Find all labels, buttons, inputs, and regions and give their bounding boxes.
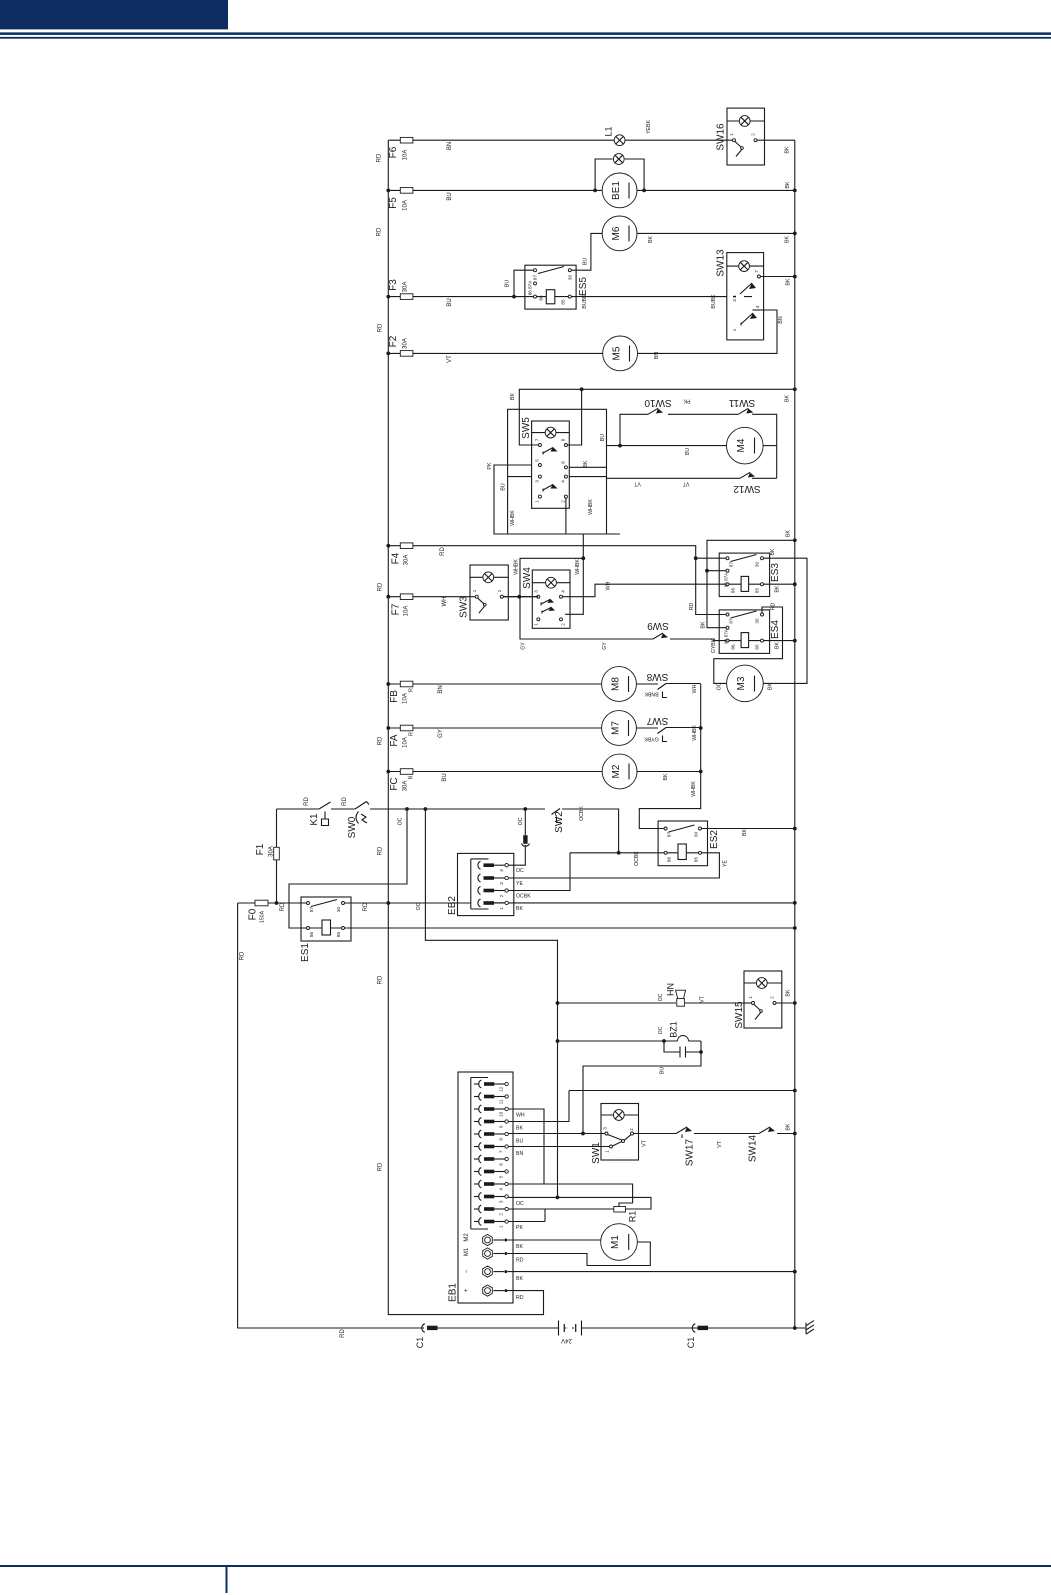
svg-text:86: 86	[731, 644, 736, 650]
svg-text:WHBK: WHBK	[588, 499, 594, 515]
svg-text:1: 1	[534, 623, 539, 626]
svg-text:24V: 24V	[561, 1337, 572, 1343]
svg-text:BN: BN	[654, 352, 660, 359]
wire ES2-86 from SW2/EB2	[508, 853, 664, 891]
svg-text:SW3: SW3	[459, 596, 470, 618]
footer tick	[226, 1567, 228, 1593]
svg-text:86: 86	[731, 588, 736, 594]
svg-text:L1: L1	[604, 126, 614, 136]
svg-text:30: 30	[336, 907, 341, 913]
svg-text:1: 1	[605, 1150, 610, 1153]
svg-text:WHBK: WHBK	[514, 559, 520, 575]
switch SW10 row	[620, 414, 738, 445]
svg-text:BU: BU	[516, 1139, 523, 1145]
svg-text:85: 85	[694, 857, 699, 863]
wire RD left bus	[388, 140, 543, 1314]
fuse F6	[388, 139, 727, 141]
svg-text:R: R	[409, 732, 415, 736]
svg-text:5: 5	[498, 1175, 503, 1178]
wire horn OC row	[558, 1002, 745, 1004]
svg-text:OCBK: OCBK	[516, 894, 531, 900]
wire stud M1 loop to M1 right	[508, 1242, 651, 1266]
svg-text:OC: OC	[658, 1026, 664, 1034]
svg-text:M1: M1	[610, 1235, 621, 1249]
svg-text:4: 4	[561, 480, 566, 483]
svg-text:OCBK: OCBK	[579, 806, 585, 821]
svg-text:4: 4	[561, 590, 566, 593]
header bar	[0, 0, 228, 29]
svg-text:BK: BK	[786, 278, 792, 285]
svg-text:GYBK: GYBK	[644, 736, 659, 742]
motor M1	[601, 1224, 638, 1261]
svg-text:BU: BU	[660, 1067, 666, 1074]
wire SW1-3 from EB1-8	[508, 1133, 605, 1135]
svg-text:BU: BU	[505, 280, 511, 287]
svg-text:SW14: SW14	[748, 1134, 759, 1162]
fuse FA	[388, 727, 601, 729]
svg-text:FB: FB	[389, 690, 400, 703]
svg-text:86 87A: 86 87A	[724, 628, 729, 643]
svg-text:SW12: SW12	[733, 483, 761, 494]
wire WHBK SW5 to SW4	[503, 558, 583, 614]
svg-text:87: 87	[729, 618, 734, 624]
svg-text:R1: R1	[628, 1211, 638, 1223]
svg-text:RD: RD	[378, 736, 384, 745]
svg-text:VT: VT	[633, 481, 640, 487]
svg-text:SW5: SW5	[521, 417, 532, 439]
svg-text:BNBK: BNBK	[644, 691, 659, 697]
svg-text:C1: C1	[415, 1337, 425, 1349]
svg-text:F0: F0	[248, 908, 259, 920]
wire EB1-7 BN to SW1-1	[508, 1146, 609, 1148]
svg-text:BK: BK	[785, 236, 791, 243]
fuse F4	[388, 546, 726, 615]
svg-text:BU: BU	[447, 298, 453, 306]
svg-text:4: 4	[498, 1188, 503, 1191]
svg-text:RD: RD	[516, 1258, 524, 1264]
EB1 stud M2	[483, 1234, 493, 1245]
wire ES1-86 energize path	[289, 809, 407, 928]
wire RD battery feed (far left)	[238, 903, 424, 1328]
svg-text:RD: RD	[304, 797, 310, 806]
svg-text:30A: 30A	[403, 781, 409, 792]
svg-text:BK: BK	[770, 548, 776, 555]
svg-text:SW4: SW4	[522, 567, 533, 589]
motor M8	[602, 667, 637, 702]
svg-text:RD: RD	[378, 846, 384, 855]
wire OC to EB2-4 with inline connector	[508, 809, 525, 865]
svg-text:WH: WH	[606, 581, 612, 590]
svg-text:2: 2	[629, 1128, 634, 1131]
svg-text:M6: M6	[611, 226, 622, 240]
svg-text:BK: BK	[648, 236, 654, 243]
svg-text:ES1: ES1	[300, 943, 311, 962]
svg-text:OC: OC	[516, 1201, 524, 1207]
switch SW15	[744, 971, 782, 1028]
svg-text:SW11: SW11	[728, 397, 755, 408]
switch SW13	[727, 253, 764, 340]
switch SW8	[636, 684, 700, 698]
switch SW7	[636, 728, 700, 742]
svg-text:86: 86	[309, 932, 314, 938]
footer rule	[0, 1565, 1051, 1567]
svg-text:RD: RD	[440, 547, 446, 556]
svg-text:BN: BN	[438, 685, 444, 693]
svg-text:87: 87	[729, 562, 734, 568]
svg-text:RD: RD	[378, 1162, 384, 1171]
svg-text:BU: BU	[600, 434, 606, 441]
svg-text:OC: OC	[717, 682, 723, 690]
svg-text:VT: VT	[700, 995, 706, 1002]
svg-text:M8: M8	[611, 677, 622, 691]
wire BK right bus	[794, 140, 796, 1328]
switch SW17	[676, 1127, 687, 1138]
svg-text:WH: WH	[516, 1113, 525, 1119]
svg-text:R: R	[409, 775, 415, 779]
svg-text:86: 86	[539, 295, 544, 301]
svg-text:BK: BK	[516, 1126, 523, 1132]
svg-text:WH: WH	[692, 684, 698, 693]
svg-text:6: 6	[498, 1163, 503, 1166]
svg-text:BK: BK	[663, 773, 669, 780]
svg-text:SW13: SW13	[716, 249, 727, 277]
svg-text:F4: F4	[391, 552, 402, 564]
svg-text:7: 7	[535, 438, 540, 441]
svg-text:VT: VT	[717, 1140, 723, 1147]
connector EB1	[458, 1072, 513, 1303]
fuse F2	[388, 352, 602, 354]
svg-text:K1: K1	[309, 813, 320, 826]
relay ES3	[719, 553, 769, 596]
svg-text:PK: PK	[487, 462, 493, 469]
svg-text:BN: BN	[778, 316, 784, 323]
switch SW4	[532, 570, 570, 628]
wire F4 to ES3-87	[696, 557, 726, 559]
wire M5 BN to SW13-4	[638, 310, 778, 353]
relay ES2	[658, 821, 707, 866]
svg-text:RD: RD	[378, 323, 384, 332]
svg-text:3: 3	[499, 882, 504, 885]
svg-text:1: 1	[729, 133, 734, 136]
fuse FC	[388, 771, 602, 773]
svg-text:−: −	[464, 1269, 470, 1273]
wire ES2-30 to bus	[702, 828, 795, 830]
svg-text:BK: BK	[742, 829, 748, 836]
motor M4	[727, 427, 764, 464]
svg-text:RD: RD	[377, 153, 383, 162]
svg-text:M3: M3	[736, 676, 747, 690]
svg-text:VT: VT	[682, 481, 689, 487]
svg-text:3 5: 3 5	[732, 295, 737, 302]
svg-text:BUBK: BUBK	[711, 294, 717, 309]
svg-text:YE: YE	[723, 860, 729, 867]
wire EB1-2/1 PK jumper to R1 left	[508, 1209, 614, 1222]
svg-text:SW15: SW15	[734, 1001, 745, 1029]
svg-text:WHBK: WHBK	[575, 559, 581, 575]
svg-text:RD: RD	[378, 975, 384, 984]
EB1 stud minus	[483, 1266, 493, 1277]
svg-text:BN: BN	[447, 142, 453, 150]
svg-text:BK: BK	[785, 181, 791, 188]
switch SW5	[532, 421, 570, 508]
svg-text:SW2: SW2	[554, 811, 565, 833]
switch SW2	[552, 809, 562, 823]
svg-text:SW16: SW16	[716, 123, 727, 151]
wire ES5-87 jog	[514, 270, 533, 296]
svg-text:ES2: ES2	[709, 830, 720, 849]
wire SW1-2 through SW17 SW14 to bus	[634, 1133, 795, 1135]
switch SW14	[759, 1127, 770, 1134]
svg-text:30: 30	[567, 275, 572, 281]
wire ES2-85 YE to EB2-3	[508, 853, 719, 878]
wire plus RD row	[506, 1290, 509, 1292]
svg-text:R: R	[409, 688, 415, 692]
svg-text:2: 2	[770, 996, 775, 999]
svg-text:ES3: ES3	[770, 563, 781, 582]
svg-text:BK: BK	[775, 642, 781, 649]
resistor R1	[614, 1207, 626, 1213]
svg-text:GY: GY	[602, 642, 608, 650]
wire SW5 BK to bus	[519, 389, 795, 445]
svg-text:BU: BU	[685, 448, 691, 455]
svg-text:BK: BK	[785, 395, 791, 402]
wire ES1-85 to bus	[345, 927, 795, 929]
svg-text:1: 1	[732, 328, 737, 331]
wire 87A chain from bus	[707, 540, 795, 627]
svg-text:SW1: SW1	[591, 1142, 602, 1164]
svg-text:OC: OC	[398, 817, 404, 825]
svg-text:8: 8	[498, 1138, 503, 1141]
svg-text:F7: F7	[391, 603, 402, 615]
svg-text:BK: BK	[775, 585, 781, 592]
fuse F1	[276, 809, 278, 903]
svg-text:SW10: SW10	[644, 397, 672, 408]
svg-text:3: 3	[534, 590, 539, 593]
svg-text:10A: 10A	[403, 200, 409, 211]
svg-text:BK: BK	[768, 683, 774, 690]
connector EB2 pin 4	[478, 861, 481, 869]
capacitor branch under BZ1	[664, 1041, 701, 1058]
relay ES5	[525, 265, 576, 309]
svg-text:OCBK: OCBK	[634, 851, 640, 866]
svg-text:10A: 10A	[403, 737, 409, 748]
svg-text:86 87A: 86 87A	[724, 572, 729, 587]
motor M7	[602, 711, 637, 746]
buzzer BZ1 row	[558, 1040, 702, 1042]
EB1 stud plus	[483, 1285, 493, 1296]
svg-text:BU: BU	[501, 483, 507, 490]
svg-text:OC: OC	[658, 993, 664, 1001]
svg-text:WHBK: WHBK	[691, 781, 697, 797]
svg-text:30: 30	[755, 562, 760, 568]
svg-text:7: 7	[754, 270, 759, 273]
svg-text:HN: HN	[666, 983, 676, 996]
svg-text:1: 1	[498, 1225, 503, 1228]
svg-text:BU: BU	[447, 192, 453, 200]
switch SW16	[727, 108, 765, 165]
fuse F0 row	[238, 902, 795, 904]
svg-text:SW7: SW7	[646, 715, 668, 726]
ground chassis symbol	[806, 1321, 814, 1335]
svg-text:RD: RD	[363, 902, 369, 911]
svg-text:RD: RD	[689, 603, 695, 611]
svg-text:F6: F6	[388, 146, 399, 158]
fuse F5	[388, 189, 602, 191]
contactor K1	[319, 802, 331, 826]
svg-text:10A: 10A	[404, 606, 410, 617]
fuse FB	[388, 683, 601, 685]
svg-text:RD: RD	[340, 1329, 346, 1338]
svg-text:87: 87	[533, 275, 538, 281]
svg-text:FA: FA	[389, 734, 400, 747]
relay ES1	[301, 897, 351, 941]
svg-text:2: 2	[498, 1213, 503, 1216]
svg-text:87: 87	[667, 832, 672, 838]
svg-text:85: 85	[336, 932, 341, 938]
wire ES4-85 to bus	[764, 640, 795, 642]
svg-text:OC: OC	[518, 817, 524, 825]
wire SW8/SW7/M2 common vertical to ES2-87	[639, 684, 700, 829]
wire ES3-85 to bus	[764, 583, 795, 585]
svg-text:4: 4	[499, 869, 504, 872]
svg-text:F2: F2	[388, 335, 399, 347]
svg-text:BK: BK	[786, 989, 792, 996]
svg-text:M5: M5	[612, 346, 623, 360]
svg-text:85: 85	[561, 299, 566, 305]
svg-text:6: 6	[561, 461, 566, 464]
svg-text:BZ1: BZ1	[669, 1021, 679, 1038]
svg-text:BE1: BE1	[611, 181, 622, 200]
switch SW12 row	[607, 472, 777, 478]
motor M6	[602, 216, 637, 251]
switch SW11	[738, 408, 776, 478]
wire K1/SW0 ignition row	[277, 809, 619, 853]
svg-text:RD: RD	[378, 582, 384, 591]
svg-text:3: 3	[603, 1127, 608, 1130]
svg-text:1: 1	[748, 996, 753, 999]
svg-text:3: 3	[498, 1200, 503, 1203]
wire ES4-30 to M3	[714, 607, 783, 683]
svg-text:BK: BK	[701, 621, 707, 628]
svg-text:2: 2	[497, 589, 502, 592]
horn HN	[677, 999, 685, 1007]
svg-text:RD: RD	[240, 951, 246, 960]
svg-text:M2: M2	[464, 1233, 470, 1242]
svg-text:WHBK: WHBK	[692, 725, 698, 741]
svg-text:BK: BK	[785, 146, 791, 153]
svg-text:OC: OC	[516, 868, 524, 874]
svg-text:PK: PK	[683, 398, 690, 404]
svg-text:SW17: SW17	[685, 1138, 696, 1166]
svg-text:10: 10	[498, 1111, 503, 1117]
svg-text:GY: GY	[521, 642, 527, 650]
svg-text:87: 87	[309, 907, 314, 913]
svg-text:WH: WH	[442, 597, 448, 607]
svg-text:VT: VT	[642, 1139, 648, 1146]
svg-text:RD: RD	[771, 603, 777, 611]
svg-text:2: 2	[751, 133, 756, 136]
svg-text:11: 11	[498, 1099, 503, 1104]
svg-text:ES4: ES4	[770, 620, 781, 639]
svg-text:30A: 30A	[403, 338, 409, 349]
svg-text:12: 12	[498, 1086, 503, 1092]
svg-text:BK: BK	[583, 460, 589, 467]
svg-text:VT: VT	[447, 355, 453, 363]
svg-text:BU: BU	[583, 258, 589, 265]
svg-text:9: 9	[498, 1125, 503, 1128]
svg-text:+: +	[464, 1288, 470, 1292]
key switch SW0	[355, 802, 369, 824]
svg-text:C1: C1	[686, 1337, 696, 1349]
svg-text:BK: BK	[516, 906, 523, 912]
wire EB1-9 BK to bus	[508, 1091, 795, 1122]
svg-text:85: 85	[755, 588, 760, 594]
svg-text:RD: RD	[516, 1295, 524, 1301]
connector EB2 pin 3	[478, 874, 481, 882]
wire EB1-3 OC row to R1 right	[508, 1197, 651, 1209]
svg-text:GYBK: GYBK	[711, 638, 717, 653]
svg-text:150A: 150A	[260, 910, 266, 923]
fuse F7	[388, 596, 537, 598]
lamp L1	[614, 135, 625, 146]
relay ES4	[719, 610, 769, 654]
svg-text:BK: BK	[510, 393, 516, 400]
svg-text:EB2: EB2	[447, 896, 458, 915]
svg-text:F5: F5	[388, 197, 399, 209]
svg-text:M2: M2	[611, 764, 622, 778]
motor M2	[602, 754, 637, 789]
connector C1 right	[692, 1324, 695, 1333]
svg-text:10A: 10A	[403, 693, 409, 704]
wire M6 to ES5-30	[572, 233, 603, 270]
svg-text:7: 7	[498, 1150, 503, 1153]
svg-text:BK: BK	[786, 1123, 792, 1130]
svg-text:BK: BK	[786, 530, 792, 537]
svg-text:BN: BN	[516, 1151, 523, 1157]
svg-text:F3: F3	[388, 279, 399, 291]
svg-text:30: 30	[694, 832, 699, 838]
svg-text:YEBK: YEBK	[646, 120, 652, 134]
svg-text:5: 5	[535, 459, 540, 462]
svg-text:SW8: SW8	[646, 671, 668, 682]
svg-text:RD: RD	[280, 902, 286, 911]
wire OC feed down	[425, 809, 557, 1197]
motor M3	[727, 665, 764, 702]
svg-text:86: 86	[667, 857, 672, 863]
wire EB1-4 stub	[508, 1183, 544, 1185]
svg-text:2: 2	[499, 894, 504, 897]
svg-text:BK: BK	[516, 1244, 523, 1250]
connector EB2 pin 2	[478, 887, 481, 895]
EB1 pins 12..1	[474, 1080, 508, 1228]
svg-text:M1: M1	[464, 1247, 470, 1256]
motor M5	[603, 336, 638, 371]
svg-text:1: 1	[535, 500, 540, 503]
wire battery row	[438, 1327, 806, 1329]
svg-text:3: 3	[535, 480, 540, 483]
svg-text:EB1: EB1	[448, 1283, 459, 1302]
svg-text:86 87A: 86 87A	[528, 280, 533, 295]
svg-text:1: 1	[472, 589, 477, 592]
svg-text:WHBK: WHBK	[510, 510, 516, 526]
svg-text:BK: BK	[516, 1276, 523, 1282]
battery 24V	[559, 1321, 582, 1336]
svg-text:RD: RD	[342, 797, 348, 806]
header rule 2	[0, 37, 1051, 39]
svg-text:30: 30	[755, 618, 760, 624]
svg-text:85: 85	[755, 644, 760, 650]
switch SW1	[601, 1104, 639, 1161]
